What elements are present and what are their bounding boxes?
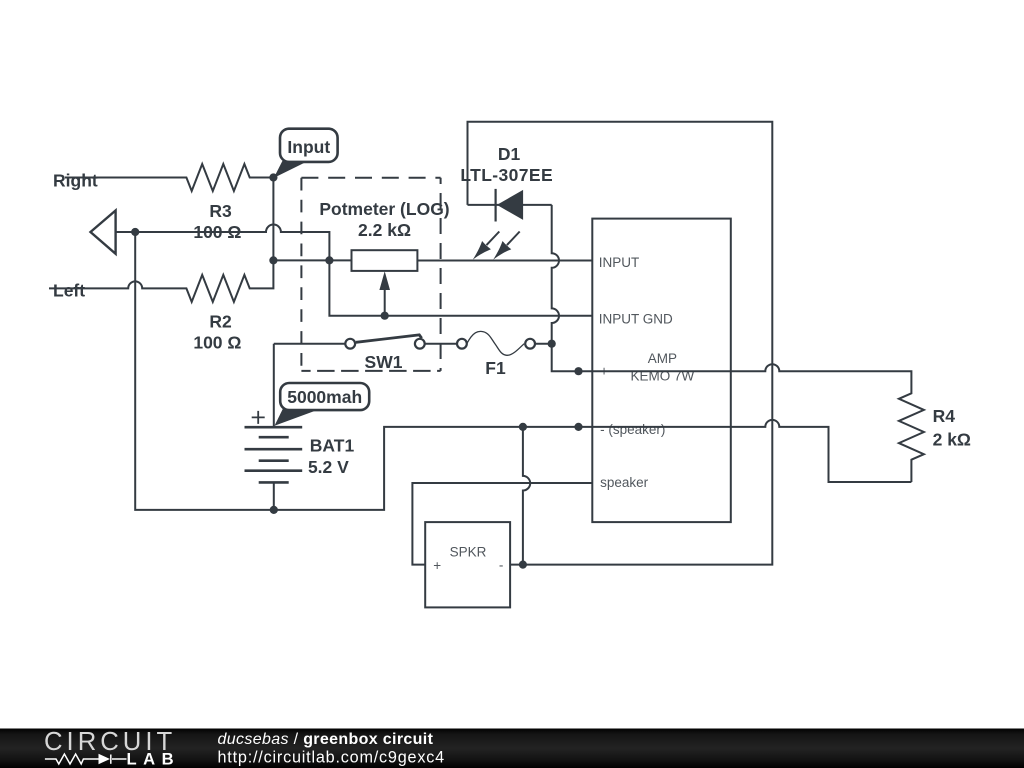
svg-text:LAB: LAB [127,750,181,768]
svg-text:INPUT GND: INPUT GND [599,311,673,326]
svg-text:AMP: AMP [648,351,677,366]
svg-text:BAT1: BAT1 [310,436,355,456]
svg-text:+: + [433,558,441,573]
svg-text:F1: F1 [485,358,506,378]
svg-text:5.2 V: 5.2 V [308,457,349,477]
svg-text:-: - [499,558,504,573]
svg-text:R4: R4 [933,406,956,426]
svg-text:- (speaker): - (speaker) [600,422,665,437]
svg-text:5000mah: 5000mah [287,387,362,407]
svg-text:Potmeter (LOG): Potmeter (LOG) [319,199,449,219]
svg-text:LTL-307EE: LTL-307EE [460,165,553,185]
svg-text:SPKR: SPKR [450,545,487,560]
svg-text:R3: R3 [209,201,232,221]
svg-text:http://circuitlab.com/c9gexc4: http://circuitlab.com/c9gexc4 [218,748,445,766]
svg-text:speaker: speaker [600,475,649,490]
svg-text:D1: D1 [498,144,521,164]
svg-text:100 Ω: 100 Ω [193,333,241,353]
svg-text:2 kΩ: 2 kΩ [933,429,971,449]
svg-text:INPUT: INPUT [599,255,640,270]
svg-text:Input: Input [287,137,330,157]
svg-text:100 Ω: 100 Ω [193,222,241,242]
svg-text:2.2 kΩ: 2.2 kΩ [358,220,411,240]
svg-text:SW1: SW1 [365,352,403,372]
svg-text:ducsebas / greenbox circuit: ducsebas / greenbox circuit [218,731,434,748]
svg-text:R2: R2 [209,312,232,332]
svg-text:Left: Left [53,281,85,301]
svg-text:Right: Right [53,171,98,191]
